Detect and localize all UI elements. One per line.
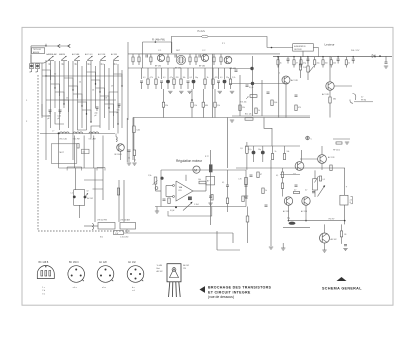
svg-text:2 b: 2 b (42, 290, 45, 292)
svg-text:47µ: 47µ (317, 63, 320, 65)
svg-text:GAMME AM: GAMME AM (46, 53, 57, 56)
svg-text:Boit.: Boit. (157, 267, 161, 270)
svg-text:5,6k: 5,6k (274, 102, 277, 104)
svg-text:47: 47 (260, 174, 262, 176)
svg-text:OSC FM: OSC FM (73, 139, 80, 141)
svg-text:1,5k: 1,5k (148, 175, 151, 177)
svg-text:SECTEUR: SECTEUR (294, 49, 302, 51)
svg-text:4,7µ: 4,7µ (303, 63, 306, 65)
svg-text:AD 162: AD 162 (157, 270, 163, 273)
svg-text:Pile 9V: Pile 9V (329, 218, 335, 220)
svg-text:HP 4Ω: HP 4Ω (361, 100, 367, 102)
svg-text:BC 148 B: BC 148 B (39, 262, 49, 264)
svg-text:Régulation moteur: Régulation moteur (176, 159, 203, 163)
svg-text:0,1: 0,1 (220, 77, 222, 79)
svg-text:100: 100 (325, 63, 328, 65)
svg-text:1k: 1k (265, 190, 267, 192)
svg-text:VOL 10k: VOL 10k (240, 102, 247, 104)
svg-text:AC 128: AC 128 (291, 79, 299, 82)
svg-text:L 7: L 7 (52, 131, 54, 133)
svg-text:1k: 1k (207, 77, 209, 79)
svg-text:HP 25 Ω: HP 25 Ω (333, 150, 340, 152)
svg-text:0,1: 0,1 (163, 77, 165, 79)
svg-text:AC 128: AC 128 (328, 156, 334, 159)
svg-text:10k: 10k (198, 179, 201, 181)
svg-text:0,1: 0,1 (143, 77, 145, 79)
svg-text:4,7µF: 4,7µF (249, 87, 253, 89)
svg-text:4,7µF: 4,7µF (170, 210, 174, 212)
svg-text:BF 194 B: BF 194 B (115, 154, 123, 156)
svg-text:4,7: 4,7 (361, 97, 363, 99)
svg-text:FI (AM+FM): FI (AM+FM) (152, 38, 165, 41)
svg-text:4,5: 4,5 (83, 152, 85, 154)
svg-text:47: 47 (296, 63, 298, 65)
svg-text:L1: L1 (48, 64, 50, 66)
svg-text:AC 132: AC 132 (128, 261, 136, 264)
svg-text:470: 470 (215, 77, 218, 79)
svg-text:470: 470 (298, 107, 301, 109)
svg-text:BéL 12k: BéL 12k (245, 114, 252, 116)
svg-text:1k: 1k (258, 110, 260, 112)
svg-text:0,1: 0,1 (222, 182, 224, 184)
svg-text:e b c: e b c (73, 287, 77, 289)
svg-text:1k: 1k (348, 63, 350, 65)
svg-text:L2: L2 (61, 64, 63, 66)
svg-text:220: 220 (176, 77, 179, 79)
svg-text:1,5k: 1,5k (194, 105, 197, 107)
svg-text:ACC AM: ACC AM (72, 53, 80, 56)
svg-text:AC 128: AC 128 (322, 93, 330, 96)
svg-text:AC 128: AC 128 (99, 261, 107, 264)
svg-text:1k: 1k (275, 151, 277, 153)
svg-text:AM-FM: AM-FM (33, 51, 40, 54)
svg-text:10µ: 10µ (195, 77, 198, 79)
svg-text:10k: 10k (183, 77, 186, 79)
svg-text:OSC 12A: OSC 12A (59, 138, 67, 141)
svg-text:C 201 280: C 201 280 (120, 237, 128, 239)
svg-text:C8: C8 (105, 98, 107, 100)
svg-text:ACC GO: ACC GO (85, 53, 93, 56)
svg-text:c d: c d (132, 290, 135, 292)
svg-text:(vue de dessous): (vue de dessous) (208, 295, 234, 299)
svg-text:AD 162: AD 162 (183, 264, 189, 267)
svg-text:220: 220 (333, 63, 336, 65)
svg-text:4,7: 4,7 (294, 189, 296, 191)
svg-text:4,7µ: 4,7µ (170, 77, 173, 79)
svg-text:Tri HM: Tri HM (157, 265, 163, 267)
svg-text:L6: L6 (113, 64, 115, 66)
svg-text:M: M (194, 169, 197, 173)
svg-text:15k: 15k (242, 107, 245, 109)
svg-text:1 c: 1 c (42, 287, 45, 289)
svg-text:AD 162: AD 162 (331, 238, 337, 241)
svg-text:680: 680 (205, 105, 208, 107)
svg-text:AC 142: AC 142 (87, 197, 93, 200)
svg-text:4,7: 4,7 (305, 189, 307, 191)
svg-text:0,1: 0,1 (276, 175, 278, 177)
svg-text:0,5: 0,5 (323, 179, 325, 181)
svg-text:R 27: R 27 (205, 156, 209, 158)
svg-text:BF 185: BF 185 (199, 66, 205, 68)
svg-text:C6: C6 (92, 90, 94, 92)
svg-text:L5: L5 (100, 64, 102, 66)
svg-text:b e: b e (132, 287, 135, 289)
svg-text:680: 680 (333, 99, 336, 101)
svg-text:MA FM: MA FM (59, 53, 65, 56)
svg-text:C9: C9 (111, 86, 113, 88)
svg-text:2,2k: 2,2k (232, 77, 235, 79)
svg-text:C4: C4 (79, 82, 81, 84)
svg-text:SCHEMA GENERAL: SCHEMA GENERAL (322, 286, 362, 290)
svg-text:220: 220 (245, 198, 248, 200)
svg-text:39k: 39k (165, 105, 168, 107)
svg-text:AC 128: AC 128 (301, 210, 307, 213)
svg-text:e b c: e b c (102, 287, 106, 289)
svg-text:L4: L4 (87, 64, 89, 66)
svg-text:AC FM: AC FM (111, 53, 117, 56)
svg-text:LTS 502 FM: LTS 502 FM (97, 220, 107, 222)
svg-text:10µ: 10µ (258, 149, 261, 151)
svg-text:L3: L3 (74, 64, 76, 66)
svg-text:P 1: P 1 (222, 43, 225, 45)
svg-text:1k: 1k (158, 77, 160, 79)
svg-text:O,5: O,5 (240, 148, 243, 150)
svg-text:OSC AM: OSC AM (89, 138, 96, 141)
svg-text:C2: C2 (54, 74, 56, 76)
svg-text:0,1: 0,1 (190, 77, 192, 79)
svg-text:1,5: 1,5 (71, 193, 73, 195)
svg-text:LTS 506 AM: LTS 506 AM (120, 219, 130, 222)
svg-text:2,2k: 2,2k (303, 67, 306, 69)
svg-text:BC 169 C: BC 169 C (69, 262, 79, 264)
svg-text:PéL 12V: PéL 12V (351, 50, 360, 52)
svg-text:C 204: C 204 (194, 204, 199, 206)
svg-text:Lecteur: Lecteur (325, 43, 335, 47)
svg-text:AC 132: AC 132 (283, 210, 289, 213)
svg-text:611: 611 (179, 190, 182, 192)
svg-text:C3: C3 (66, 98, 68, 100)
svg-text:22µ: 22µ (226, 77, 229, 79)
svg-text:X2: X2 (87, 191, 89, 193)
svg-text:BROCHAGE DES TRANSISTORS: BROCHAGE DES TRANSISTORS (208, 285, 272, 289)
svg-text:4,7k: 4,7k (150, 77, 153, 79)
svg-text:ACC FM: ACC FM (98, 53, 106, 56)
svg-text:1k: 1k (280, 63, 282, 65)
svg-text:1 W: 1 W (115, 233, 118, 235)
svg-text:BF 195: BF 195 (155, 66, 161, 68)
svg-text:3 e: 3 e (42, 293, 45, 295)
svg-text:ET CIRCUIT INTEGRE: ET CIRCUIT INTEGRE (208, 290, 251, 294)
svg-text:Pu 12v: Pu 12v (198, 30, 206, 33)
svg-text:10k: 10k (287, 151, 290, 153)
svg-text:5,6k: 5,6k (137, 130, 140, 132)
svg-text:47µ: 47µ (287, 218, 290, 220)
svg-text:2,2k: 2,2k (217, 105, 220, 107)
